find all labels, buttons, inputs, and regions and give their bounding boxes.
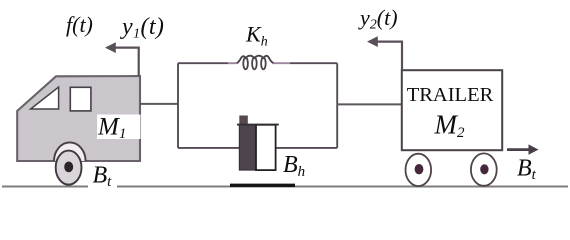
ground line left segment [2,186,88,188]
damper Bh dark piston plate [239,125,256,171]
ground thick black segment under damper [230,184,295,187]
spring loop 2 [252,58,257,70]
truck windshield triangle window [31,87,59,109]
arrow y1 [112,48,139,76]
svg-text:y1(t): y1(t) [120,14,164,42]
svg-text:f(t): f(t) [66,12,93,37]
white label patch [97,115,141,140]
frame bottom edge [178,147,337,149]
damper Bh piston rod stub [239,116,248,126]
truck wheel hub [64,162,73,173]
wire frame to trailer [337,103,401,105]
trailer wheel left [406,154,432,186]
damper Bh white cylinder [256,125,276,170]
trailer wheel right [471,153,497,185]
truck wheel [56,151,82,185]
wheel arch [54,142,86,161]
wire truck to frame [140,103,178,105]
svg-text:TRAILER: TRAILER [407,84,494,106]
ground line right segment [117,186,568,188]
truck body M1 [17,76,140,161]
frame right edge [336,63,338,148]
trailer wheel right hub [480,164,488,174]
damper Bh lid line [237,124,279,126]
arrow y2 [374,42,402,70]
spring loop 3 [261,58,266,70]
trailer wheel left hub [415,164,424,174]
svg-text:y2(t): y2(t) [358,5,398,33]
truck square window [70,87,91,111]
trailer box M2 [402,70,502,150]
frame top right segment [273,62,290,64]
spring loop 1 [243,58,248,70]
frame top left segment [178,62,228,64]
frame left edge [177,63,179,148]
arrow Bt right [507,148,530,151]
spring Kh coil [237,56,274,64]
